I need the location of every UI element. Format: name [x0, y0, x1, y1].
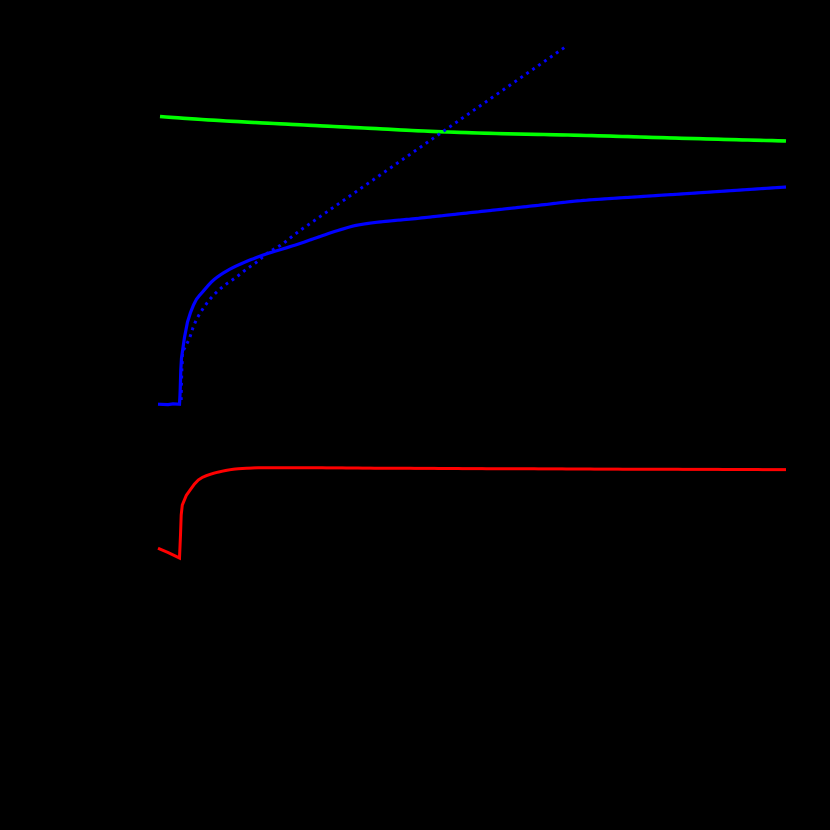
- blue dotted fit line: [181, 46, 566, 400]
- green curve (top, slowly decreasing): [160, 117, 786, 142]
- red curve (fast saturation): [158, 468, 786, 558]
- blue solid curve (logarithmic growth): [158, 187, 786, 405]
